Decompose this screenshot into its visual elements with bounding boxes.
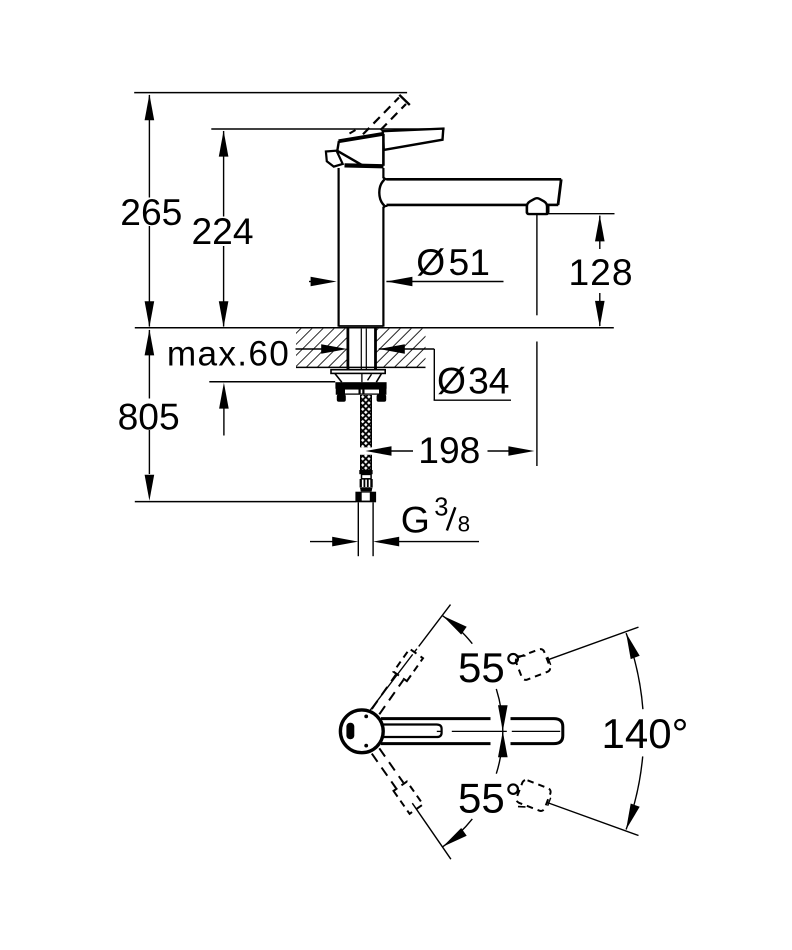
hose line inside cone xyxy=(361,373,363,382)
top view: lever slot xyxy=(383,725,442,738)
dimension 128 vertical line with arrows xyxy=(599,216,601,249)
svg-text:Ø51: Ø51 xyxy=(416,241,490,283)
G3/8 connection nut xyxy=(355,492,376,503)
mounting nut (black band) xyxy=(335,382,386,389)
raised lever tip cap xyxy=(399,95,410,105)
raised lever ghost (dashed) xyxy=(353,98,400,146)
top view: lever tip ghost upper right (dashed) xyxy=(515,648,552,681)
svg-text:805: 805 xyxy=(118,395,180,437)
svg-text:max.60: max.60 xyxy=(167,335,290,374)
top view: faucet body circle xyxy=(340,710,383,753)
braided flex hose upper segment xyxy=(361,395,372,447)
countertop hatching left xyxy=(296,329,347,368)
reference line: spout/lever height (224) xyxy=(211,128,444,130)
braided flex hose lower segment xyxy=(361,455,372,470)
dimension 224 vertical line with arrows xyxy=(223,131,225,217)
top view: 140 deg boundary radial lower xyxy=(547,802,639,835)
top view: 140 deg boundary radial upper xyxy=(547,627,639,660)
countertop bottom line xyxy=(296,366,426,368)
max depth plane line (max.60) xyxy=(209,381,335,383)
dimension Ø51 arrows xyxy=(309,281,312,283)
threaded shank through counter xyxy=(346,328,349,370)
svg-text:8: 8 xyxy=(458,512,471,537)
lever handle (horizontal position) xyxy=(383,129,444,150)
supply tube xyxy=(357,502,359,556)
hose collar xyxy=(359,470,372,474)
fixing screw right xyxy=(377,394,387,401)
top view: spout/handle outline xyxy=(381,719,563,744)
svg-text:G: G xyxy=(401,498,430,540)
top view: 140 deg arc with arrows xyxy=(626,633,643,709)
svg-text:140°: 140° xyxy=(602,710,689,757)
Ø34 leader line down xyxy=(433,349,435,400)
mounting flange plate xyxy=(331,370,385,374)
top view: 55 deg arc lower with arrows xyxy=(496,731,503,773)
svg-text:55°: 55° xyxy=(458,775,522,822)
reference line: lever max height (265) xyxy=(134,92,407,94)
svg-text:265: 265 xyxy=(120,191,182,233)
mixer head (cartridge housing) xyxy=(337,134,383,166)
countertop surface line xyxy=(135,327,614,329)
Ø34 underline xyxy=(434,399,511,401)
cone left xyxy=(335,374,342,383)
bottom reference line (805) xyxy=(135,501,356,503)
cone hatch tick xyxy=(368,374,372,380)
G3/8 dimension arrows xyxy=(310,541,333,543)
top view: 55 deg arc upper with arrows xyxy=(496,689,503,731)
top view: lever knob xyxy=(346,723,354,739)
cone right xyxy=(376,374,381,383)
lock ring xyxy=(336,389,385,394)
faucet body column xyxy=(338,168,340,327)
extension line from aerator (128) xyxy=(549,213,615,215)
top view: center line xyxy=(437,730,442,732)
top view: lever ghost at 55 deg upper (dashed) xyxy=(379,680,403,714)
spout arm xyxy=(387,178,562,181)
svg-text:224: 224 xyxy=(192,210,254,252)
hose end fitting xyxy=(362,474,372,478)
top view: dots xyxy=(364,715,368,719)
shank stubs below counter xyxy=(346,367,349,369)
max.60 up arrow xyxy=(223,408,225,436)
hose lines inside shank xyxy=(360,329,362,370)
countertop hatching right xyxy=(376,329,426,368)
fixing screw left xyxy=(337,394,346,401)
dimension 198 leader arrows xyxy=(366,446,392,456)
svg-text:128: 128 xyxy=(569,251,634,293)
svg-text:Ø34: Ø34 xyxy=(437,360,510,402)
dimension 265 vertical line with arrows xyxy=(148,95,150,198)
aerator / mousseur xyxy=(527,198,547,213)
svg-text:198: 198 xyxy=(418,429,480,471)
svg-text:3: 3 xyxy=(434,493,448,521)
top view: lever tip ghost lower right (dashed) xyxy=(515,779,552,812)
raised lever hidden dashes inside head xyxy=(350,130,356,134)
extension line below spout outlet xyxy=(536,215,538,316)
svg-text:55°: 55° xyxy=(458,644,522,691)
dimension Ø34 arrows at shank xyxy=(296,348,323,350)
dimension 805 vertical line with arrows xyxy=(148,330,150,399)
spout-body joint arc xyxy=(379,180,384,206)
top view: 55 deg radial line lower xyxy=(412,803,451,859)
lever back end behind head xyxy=(326,151,343,167)
top view: 55 deg radial line upper xyxy=(370,605,450,711)
top view: lever ghost at 55 deg lower (dashed) xyxy=(372,754,396,788)
